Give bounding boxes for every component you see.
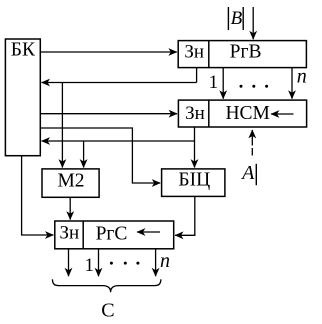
wire RgS output bit n xyxy=(155,249,157,276)
wire RgV output bit n to NSM xyxy=(291,68,293,99)
svg-text:Зн: Зн xyxy=(185,103,205,124)
block BK (control unit) xyxy=(5,39,40,156)
label |B| xyxy=(228,7,243,30)
wire BK to BIC xyxy=(40,128,160,183)
wire Zn(RgV) down stub xyxy=(196,68,198,83)
wire A input to NSM xyxy=(251,130,253,156)
svg-text:Зн: Зн xyxy=(184,42,204,63)
block RgV (register B row: Зн | РгВ) xyxy=(178,41,306,68)
svg-text:БК: БК xyxy=(11,40,36,61)
block NSM (accumulating adder row: Зн | НСМ) xyxy=(178,100,306,127)
dots between RgV outputs xyxy=(240,85,269,88)
wire BK to Zn(RgV) xyxy=(40,51,177,53)
wire Zn(RgV) to BK xyxy=(42,82,197,84)
svg-text:НСМ: НСМ xyxy=(225,103,269,124)
svg-text:С: С xyxy=(101,300,114,322)
wire M2 to Zn(RgS) xyxy=(69,197,71,219)
label A xyxy=(240,162,256,185)
svg-text:Зн: Зн xyxy=(59,223,79,244)
wire BK to Zn(NSM) xyxy=(40,113,177,115)
shift arrow inside NSM xyxy=(271,113,294,115)
shift arrow inside RgS xyxy=(137,231,160,233)
svg-text:A: A xyxy=(240,162,255,184)
wire RgV output bit 1 to NSM xyxy=(222,68,224,99)
wire branch to M2 input 1 xyxy=(61,83,63,168)
brace under RgS outputs xyxy=(52,279,160,292)
wire branch to M2 input 2 xyxy=(83,141,85,168)
wire RgS output sign xyxy=(68,249,70,276)
wire Zn(NSM) to BIC top xyxy=(194,127,196,168)
svg-text:1: 1 xyxy=(85,255,95,276)
svg-text:B: B xyxy=(231,8,243,29)
dots between RgS outputs xyxy=(110,262,139,265)
svg-text:БІЦ: БІЦ xyxy=(178,170,210,191)
wire BIC to RgS xyxy=(175,196,195,235)
svg-text:РгВ: РгВ xyxy=(230,42,262,63)
block BIC xyxy=(162,169,225,197)
wire B input to RgV xyxy=(252,7,254,39)
block M2 (mod-2 adder) xyxy=(42,169,99,197)
svg-text:РгС: РгС xyxy=(96,224,128,245)
svg-text:1: 1 xyxy=(209,72,219,93)
svg-text:n: n xyxy=(297,66,307,88)
svg-text:М2: М2 xyxy=(57,170,84,191)
wire RgS output bit 1 xyxy=(98,249,100,276)
block RgS (result register row: Зн | РгС) xyxy=(55,221,174,249)
wire BK to Zn(RgS) xyxy=(22,156,54,235)
svg-text:n: n xyxy=(160,250,170,272)
wire Zn(NSM) to BK xyxy=(42,140,195,142)
